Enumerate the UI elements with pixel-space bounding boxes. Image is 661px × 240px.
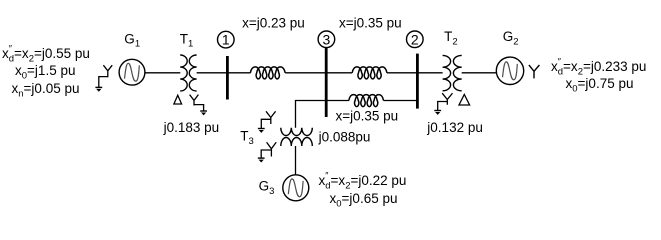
generator G2 [496,57,523,84]
bus 1 [226,56,229,100]
wire T1 to bus 1 [197,72,228,74]
line reactor 3 x=j0.35 bottom [349,95,384,107]
svg-text:G2: G2 [503,29,519,47]
T3 upper ground [258,129,265,133]
wire T3 to G3 [295,146,297,175]
svg-text:″: ″ [325,171,329,181]
generator G1 [119,59,145,85]
svg-text:3: 3 [323,31,331,47]
svg-text:″: ″ [558,57,562,67]
svg-text:x=j0.23 pu: x=j0.23 pu [242,16,305,31]
T2 wye symbol [438,93,453,110]
transformer T2 [443,55,462,90]
svg-text:G3: G3 [259,179,275,197]
svg-text:T3: T3 [240,128,254,146]
line reactor 1 x=j0.23 [250,67,285,79]
node 2 circled number [407,31,424,48]
svg-text:T2: T2 [444,29,458,47]
svg-text:T1: T1 [180,31,194,49]
svg-text:1: 1 [222,32,230,48]
wire bus 1 to line reactor 1 [227,72,250,74]
generator G3 [283,175,309,201]
T1 wye symbol [190,95,204,111]
T2 ground [434,111,441,115]
node 3 circled number [318,31,335,48]
transformer T3 [281,128,313,146]
svg-text:xd=x2=j0.22 pu: xd=x2=j0.22 pu [319,173,407,191]
svg-text:j0.132 pu: j0.132 pu [426,120,483,135]
node 1 circled number [218,31,235,48]
svg-text:x0=j0.65 pu: x0=j0.65 pu [330,191,398,209]
wire line reactor 2 to bus 2 [387,72,418,74]
wire bus 3 to line reactor 2 [326,72,352,74]
T3 lower wye symbol [261,142,276,158]
wire bus 2 to T2 [417,72,442,74]
svg-text:x0=j0.75 pu: x0=j0.75 pu [566,76,634,94]
G2 wye symbol [529,65,540,78]
T1 delta symbol [174,95,182,104]
svg-text:G1: G1 [124,31,140,49]
wire T2 to G2 [462,72,497,74]
wire T3 riser and tap to lower line [296,101,349,128]
svg-text:″: ″ [9,44,13,54]
G1 neutral wye symbol [99,65,112,87]
line reactor 2 x=j0.35 top [352,67,387,79]
svg-text:x0=j1.5 pu: x0=j1.5 pu [15,63,75,81]
svg-text:j0.183 pu: j0.183 pu [163,120,220,135]
wire G1 to T1 [145,72,181,74]
svg-text:xn=j0.05 pu: xn=j0.05 pu [12,81,80,99]
G1 ground [95,87,102,91]
T1 ground [200,111,207,115]
svg-text:x=j0.35 pu: x=j0.35 pu [336,109,399,124]
svg-text:xd=x2=j0.55 pu: xd=x2=j0.55 pu [2,46,90,64]
bus 3 [325,48,328,118]
wire line reactor 1 to bus 3 [285,72,326,74]
wire line reactor 3 to bus 2 [384,100,418,102]
T2 delta symbol [459,95,470,106]
svg-text:xd=x2=j0.233 pu: xd=x2=j0.233 pu [551,59,646,77]
svg-text:j0.088pu: j0.088pu [318,130,371,145]
transformer T1 [180,55,196,91]
svg-text:x=j0.35 pu: x=j0.35 pu [339,16,402,31]
bus 2 [416,54,419,109]
svg-text:2: 2 [411,31,419,47]
T3 lower ground [258,158,265,162]
T3 upper wye symbol [261,111,275,128]
